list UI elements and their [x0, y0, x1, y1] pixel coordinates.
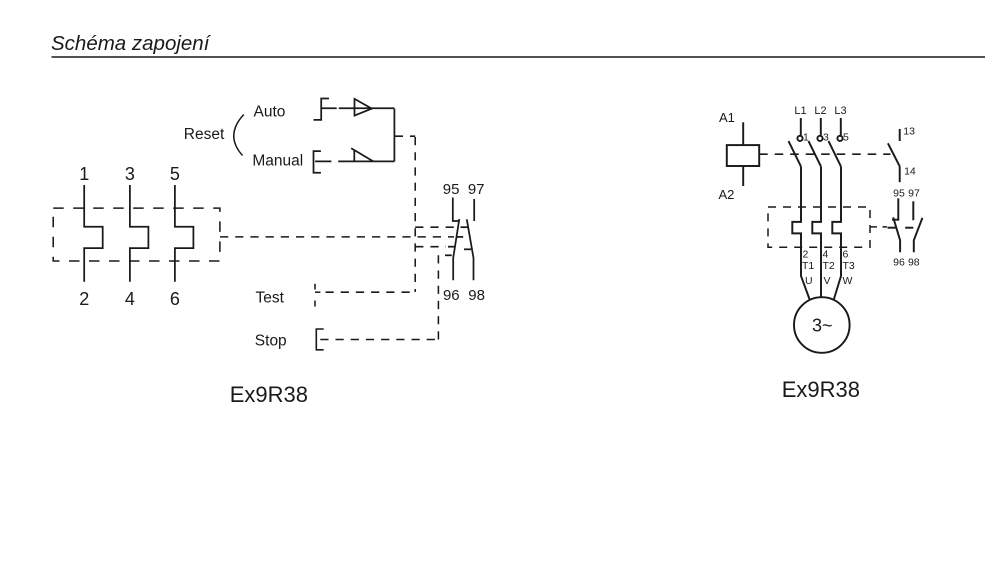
svg-text:98: 98	[468, 287, 485, 304]
trip-bar link from reset loop	[395, 135, 415, 137]
linkage tick lower NO	[464, 248, 471, 250]
heater element right pole 1	[792, 167, 810, 301]
svg-text:U: U	[805, 275, 813, 287]
svg-text:98: 98	[908, 257, 920, 269]
linkage from heater box to NC contact	[220, 236, 454, 238]
Auto actuator bracket	[314, 99, 330, 120]
Manual trip triangle	[351, 148, 373, 161]
svg-text:96: 96	[893, 257, 905, 269]
linkage branch to NO contact	[415, 226, 456, 228]
svg-text:13: 13	[903, 126, 915, 138]
svg-text:L2: L2	[814, 105, 826, 117]
heater element right pole 3	[832, 167, 841, 301]
coil control dashed line	[759, 153, 890, 155]
heater element pole 2 (terminals 3-4)	[130, 185, 149, 282]
svg-text:T2: T2	[823, 260, 835, 272]
svg-text:4: 4	[823, 249, 829, 261]
svg-text:L3: L3	[834, 105, 846, 117]
svg-text:Auto: Auto	[254, 104, 286, 121]
contactor coil box	[727, 145, 759, 166]
dashed trip stub from box	[870, 226, 887, 228]
svg-text:96: 96	[443, 287, 460, 304]
Auto link line	[321, 107, 394, 109]
heater element pole 3 (terminals 5-6)	[175, 185, 194, 282]
svg-text:1: 1	[79, 164, 89, 184]
svg-text:A1: A1	[719, 110, 735, 125]
svg-text:6: 6	[843, 249, 849, 261]
svg-text:Schéma zapojení: Schéma zapojení	[51, 32, 212, 55]
svg-text:5: 5	[843, 132, 849, 144]
svg-text:3~: 3~	[812, 316, 833, 336]
Test linkage wire	[326, 291, 416, 293]
svg-text:T1: T1	[802, 260, 814, 272]
right NC contact 95-96	[892, 198, 900, 252]
svg-text:T3: T3	[843, 260, 855, 272]
reset loop right vertical	[393, 109, 395, 162]
right NO trip tick	[905, 227, 913, 229]
svg-text:1: 1	[803, 132, 809, 144]
Manual link line	[315, 160, 394, 162]
main contact pole 3	[840, 118, 842, 136]
svg-text:97: 97	[468, 181, 485, 198]
right NO contact 97-98	[913, 201, 922, 252]
Test actuator tick	[315, 291, 320, 293]
heater element pole 1 (terminals 1-2)	[84, 185, 103, 282]
motor M 3~	[794, 297, 850, 353]
svg-text:6: 6	[170, 289, 180, 309]
dashed enclosure box around heater elements	[53, 208, 220, 261]
svg-text:A2: A2	[719, 187, 735, 202]
Auto reset triangle	[355, 99, 372, 116]
title underline	[52, 56, 986, 58]
svg-text:3: 3	[823, 132, 829, 144]
Stop linkage wire	[320, 339, 438, 341]
svg-text:2: 2	[803, 249, 809, 261]
svg-text:Stop: Stop	[255, 333, 287, 350]
svg-text:Manual: Manual	[252, 153, 303, 170]
linkage tick on NO slant	[461, 226, 469, 228]
NC contact 95-96	[453, 198, 460, 281]
main contact pole 2	[820, 118, 822, 136]
svg-text:V: V	[824, 275, 831, 287]
heater element right pole 2	[812, 167, 821, 298]
Test actuator dashed stem	[314, 284, 316, 307]
coil top wire	[742, 122, 744, 145]
svg-text:Ex9R38: Ex9R38	[782, 377, 860, 402]
Manual actuator bracket	[314, 151, 321, 173]
linkage tick lower NC	[448, 246, 455, 248]
svg-text:5: 5	[170, 164, 180, 184]
svg-text:4: 4	[125, 289, 135, 309]
svg-text:Test: Test	[256, 290, 285, 307]
Stop linkage tick to 96	[445, 254, 452, 256]
svg-text:14: 14	[904, 165, 916, 177]
svg-text:95: 95	[443, 181, 460, 198]
svg-text:L1: L1	[794, 105, 806, 117]
Stop linkage riser	[437, 255, 439, 339]
Stop actuator bracket	[316, 329, 323, 350]
svg-text:2: 2	[79, 289, 89, 309]
svg-text:Ex9R38: Ex9R38	[230, 382, 308, 407]
main contact pole 1	[800, 118, 802, 136]
svg-text:W: W	[843, 275, 853, 287]
NO contact 97-98	[467, 199, 474, 280]
svg-text:97: 97	[908, 188, 920, 200]
svg-text:Reset: Reset	[184, 126, 225, 143]
coil bottom wire	[742, 166, 744, 186]
Reset brace arc	[234, 115, 244, 156]
linkage branch lower	[415, 246, 446, 248]
aux contact 13-14	[888, 129, 900, 182]
right NC trip tick	[888, 227, 897, 229]
trip-bar vertical linkage	[414, 137, 416, 292]
svg-text:95: 95	[893, 188, 905, 200]
linkage tick on NC slant	[457, 236, 464, 238]
svg-text:3: 3	[125, 164, 135, 184]
dashed overload box right	[768, 207, 870, 247]
